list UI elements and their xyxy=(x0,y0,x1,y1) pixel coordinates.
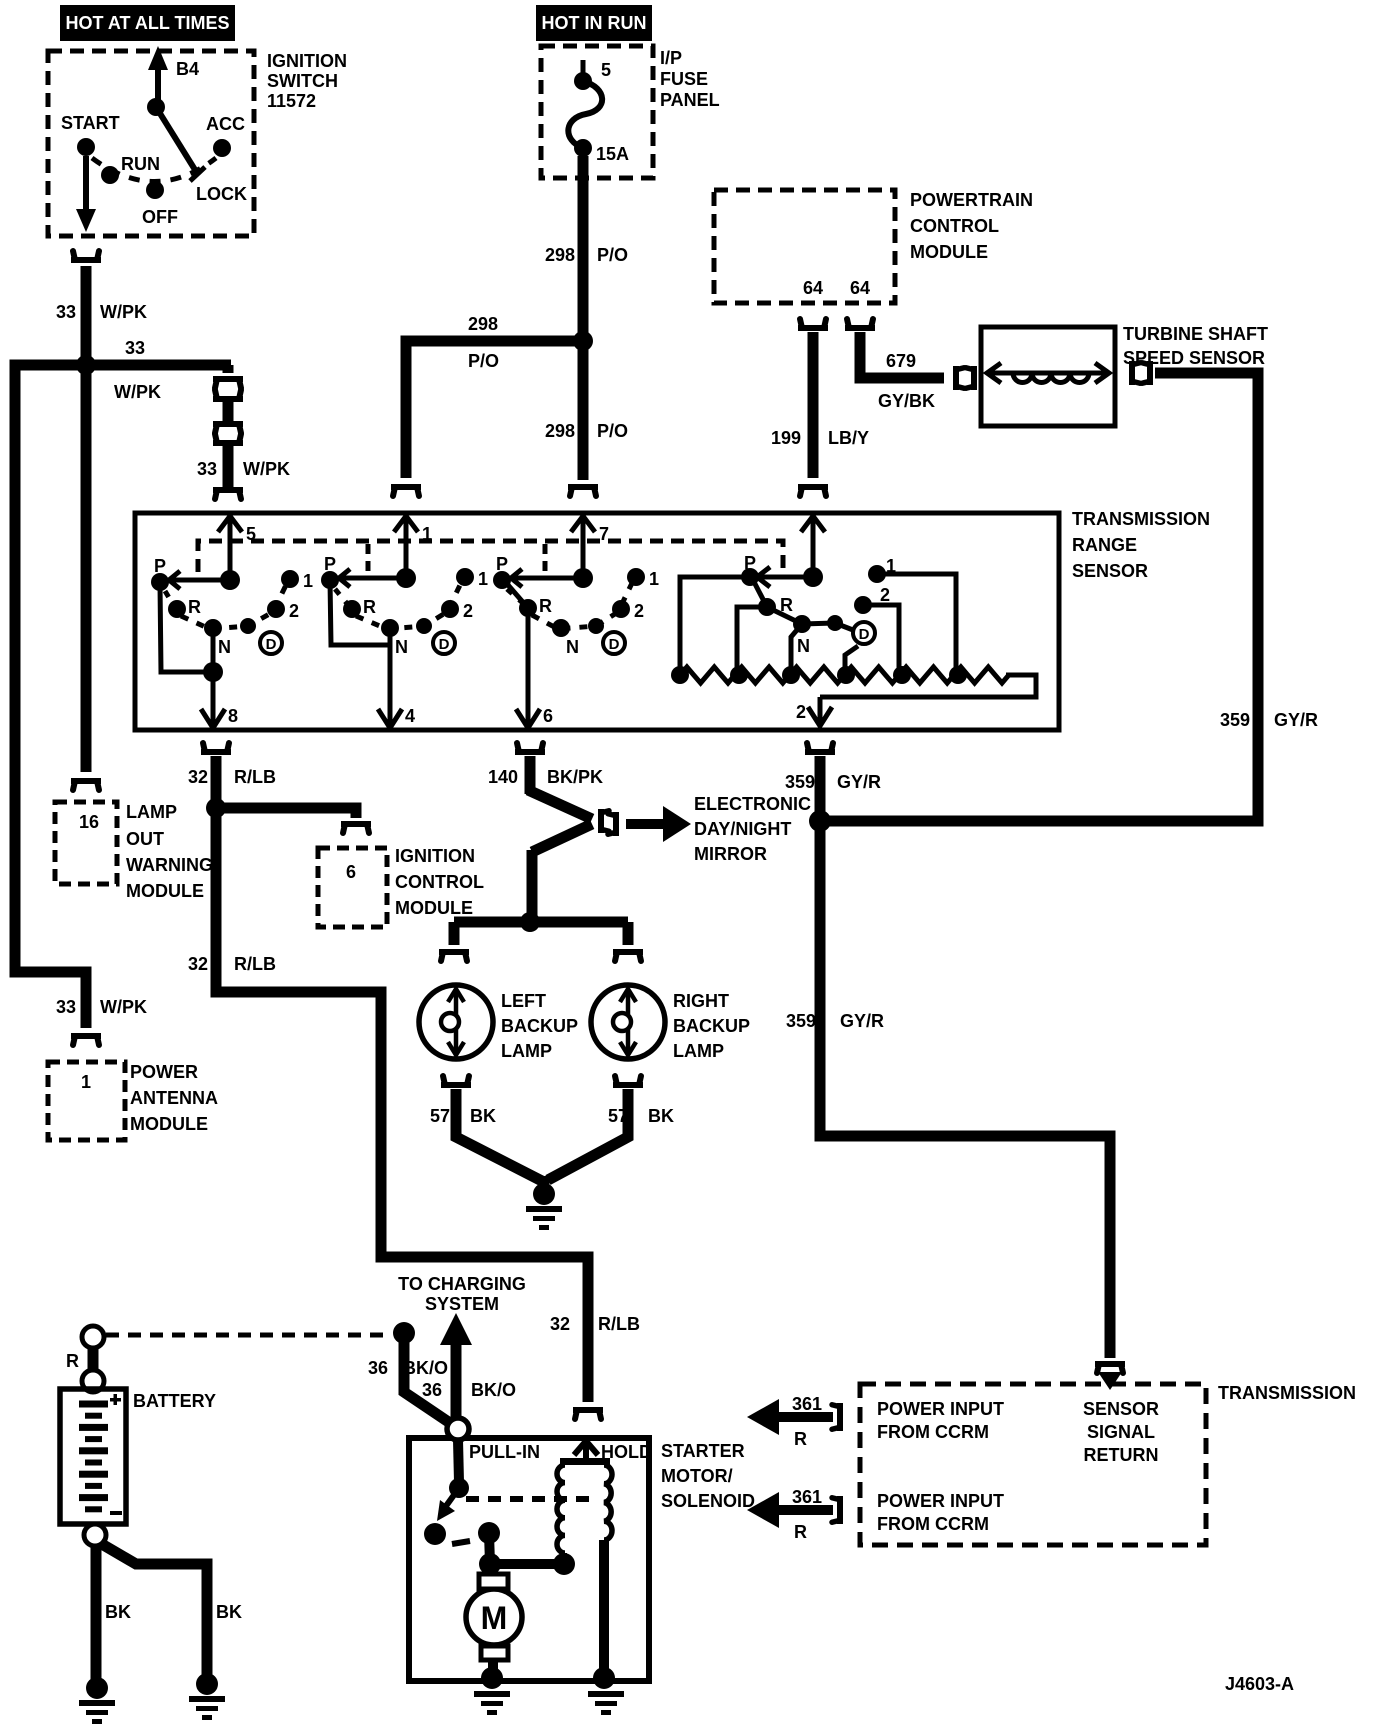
svg-text:1: 1 xyxy=(81,1072,91,1092)
svg-text:LAMP: LAMP xyxy=(126,802,177,822)
svg-text:2: 2 xyxy=(634,601,644,621)
svg-text:298: 298 xyxy=(545,245,575,265)
svg-text:N: N xyxy=(218,637,231,657)
svg-text:298: 298 xyxy=(545,421,575,441)
svg-text:D: D xyxy=(859,626,870,643)
svg-text:LAMP: LAMP xyxy=(673,1041,724,1061)
svg-text:W/PK: W/PK xyxy=(100,302,147,322)
svg-text:BK/PK: BK/PK xyxy=(547,767,603,787)
svg-text:DAY/NIGHT: DAY/NIGHT xyxy=(694,819,791,839)
svg-text:RIGHT: RIGHT xyxy=(673,991,729,1011)
svg-text:11572: 11572 xyxy=(267,91,316,111)
svg-text:M: M xyxy=(481,1600,508,1636)
svg-text:P: P xyxy=(496,554,508,574)
svg-text:FROM CCRM: FROM CCRM xyxy=(877,1422,989,1442)
svg-text:5: 5 xyxy=(246,524,256,544)
svg-text:7: 7 xyxy=(599,524,609,544)
svg-text:RETURN: RETURN xyxy=(1084,1445,1159,1465)
svg-text:POWERTRAIN: POWERTRAIN xyxy=(910,190,1033,210)
svg-text:5: 5 xyxy=(601,60,611,80)
svg-text:P/O: P/O xyxy=(597,245,628,265)
svg-text:32: 32 xyxy=(550,1314,570,1334)
svg-text:SWITCH: SWITCH xyxy=(267,71,338,91)
svg-text:LB/Y: LB/Y xyxy=(828,428,869,448)
svg-text:N: N xyxy=(395,637,408,657)
svg-text:2: 2 xyxy=(880,585,890,605)
svg-text:FROM CCRM: FROM CCRM xyxy=(877,1514,989,1534)
svg-text:TRANSMISSION: TRANSMISSION xyxy=(1218,1383,1356,1403)
svg-text:SENSOR: SENSOR xyxy=(1072,561,1148,581)
svg-text:BK: BK xyxy=(216,1602,242,1622)
svg-text:W/PK: W/PK xyxy=(114,382,161,402)
svg-text:LAMP: LAMP xyxy=(501,1041,552,1061)
svg-text:N: N xyxy=(566,637,579,657)
svg-text:CONTROL: CONTROL xyxy=(910,216,999,236)
svg-text:TO CHARGING: TO CHARGING xyxy=(398,1274,526,1294)
svg-text:57: 57 xyxy=(608,1106,628,1126)
svg-text:36: 36 xyxy=(368,1358,388,1378)
svg-text:ELECTRONIC: ELECTRONIC xyxy=(694,794,811,814)
svg-text:MODULE: MODULE xyxy=(130,1114,208,1134)
svg-text:GY/R: GY/R xyxy=(840,1011,884,1031)
svg-text:R: R xyxy=(794,1429,807,1449)
svg-text:15A: 15A xyxy=(596,144,629,164)
svg-text:36: 36 xyxy=(422,1380,442,1400)
svg-text:1: 1 xyxy=(422,524,432,544)
svg-text:6: 6 xyxy=(543,706,553,726)
svg-text:8: 8 xyxy=(228,706,238,726)
svg-text:BK/O: BK/O xyxy=(471,1380,516,1400)
svg-text:POWER INPUT: POWER INPUT xyxy=(877,1491,1004,1511)
svg-text:TURBINE SHAFT: TURBINE SHAFT xyxy=(1123,324,1268,344)
svg-text:1: 1 xyxy=(303,571,313,591)
svg-text:W/PK: W/PK xyxy=(243,459,290,479)
svg-text:PANEL: PANEL xyxy=(660,90,720,110)
svg-text:TRANSMISSION: TRANSMISSION xyxy=(1072,509,1210,529)
svg-text:SOLENOID: SOLENOID xyxy=(661,1491,755,1511)
svg-text:START: START xyxy=(61,113,120,133)
svg-text:GY/R: GY/R xyxy=(837,772,881,792)
svg-text:P/O: P/O xyxy=(597,421,628,441)
svg-text:D: D xyxy=(439,636,450,653)
svg-text:HOT IN RUN: HOT IN RUN xyxy=(542,13,647,33)
svg-text:2: 2 xyxy=(796,702,806,722)
svg-text:4: 4 xyxy=(405,706,415,726)
svg-text:6: 6 xyxy=(346,862,356,882)
svg-text:359: 359 xyxy=(785,772,815,792)
svg-text:R: R xyxy=(188,597,201,617)
svg-text:W/PK: W/PK xyxy=(100,997,147,1017)
svg-text:ACC: ACC xyxy=(206,114,245,134)
svg-text:R: R xyxy=(794,1522,807,1542)
svg-text:IGNITION: IGNITION xyxy=(395,846,475,866)
svg-text:R/LB: R/LB xyxy=(234,954,276,974)
svg-text:BK: BK xyxy=(105,1602,131,1622)
svg-text:POWER INPUT: POWER INPUT xyxy=(877,1399,1004,1419)
svg-text:OUT: OUT xyxy=(126,829,164,849)
svg-text:HOT AT ALL TIMES: HOT AT ALL TIMES xyxy=(66,13,230,33)
svg-text:BACKUP: BACKUP xyxy=(501,1016,578,1036)
svg-text:R/LB: R/LB xyxy=(234,767,276,787)
svg-text:D: D xyxy=(609,636,620,653)
svg-text:RUN: RUN xyxy=(121,154,160,174)
svg-text:361: 361 xyxy=(792,1487,822,1507)
svg-text:MODULE: MODULE xyxy=(910,242,988,262)
svg-text:BACKUP: BACKUP xyxy=(673,1016,750,1036)
svg-text:2: 2 xyxy=(289,601,299,621)
svg-text:R: R xyxy=(66,1351,79,1371)
svg-text:679: 679 xyxy=(886,351,916,371)
svg-text:298: 298 xyxy=(468,314,498,334)
svg-text:LEFT: LEFT xyxy=(501,991,546,1011)
svg-text:I/P: I/P xyxy=(660,48,682,68)
svg-text:MIRROR: MIRROR xyxy=(694,844,767,864)
svg-text:140: 140 xyxy=(488,767,518,787)
svg-text:B4: B4 xyxy=(176,59,199,79)
svg-text:BK/O: BK/O xyxy=(403,1358,448,1378)
svg-text:2: 2 xyxy=(463,601,473,621)
svg-text:P: P xyxy=(324,554,336,574)
svg-text:P: P xyxy=(154,556,166,576)
svg-text:OFF: OFF xyxy=(142,207,178,227)
svg-text:SIGNAL: SIGNAL xyxy=(1087,1422,1155,1442)
svg-text:CONTROL: CONTROL xyxy=(395,872,484,892)
svg-text:SYSTEM: SYSTEM xyxy=(425,1294,499,1314)
svg-text:32: 32 xyxy=(188,767,208,787)
svg-text:MODULE: MODULE xyxy=(126,881,204,901)
svg-text:BK: BK xyxy=(648,1106,674,1126)
svg-text:64: 64 xyxy=(850,278,870,298)
svg-text:57: 57 xyxy=(430,1106,450,1126)
svg-text:33: 33 xyxy=(197,459,217,479)
svg-text:33: 33 xyxy=(125,338,145,358)
svg-text:P/O: P/O xyxy=(468,351,499,371)
svg-text:BK: BK xyxy=(470,1106,496,1126)
svg-text:R/LB: R/LB xyxy=(598,1314,640,1334)
svg-text:64: 64 xyxy=(803,278,823,298)
svg-text:STARTER: STARTER xyxy=(661,1441,745,1461)
svg-text:1: 1 xyxy=(649,569,659,589)
svg-text:J4603-A: J4603-A xyxy=(1225,1674,1294,1694)
svg-text:199: 199 xyxy=(771,428,801,448)
svg-text:16: 16 xyxy=(79,812,99,832)
svg-text:MOTOR/: MOTOR/ xyxy=(661,1466,733,1486)
svg-text:POWER: POWER xyxy=(130,1062,198,1082)
svg-text:R: R xyxy=(539,596,552,616)
svg-text:WARNING: WARNING xyxy=(126,855,213,875)
svg-text:1: 1 xyxy=(478,569,488,589)
svg-text:N: N xyxy=(797,636,810,656)
svg-text:BATTERY: BATTERY xyxy=(133,1391,216,1411)
svg-text:359: 359 xyxy=(786,1011,816,1031)
svg-text:GY/R: GY/R xyxy=(1274,710,1318,730)
svg-text:IGNITION: IGNITION xyxy=(267,51,347,71)
svg-text:SENSOR: SENSOR xyxy=(1083,1399,1159,1419)
svg-text:LOCK: LOCK xyxy=(196,184,247,204)
svg-text:33: 33 xyxy=(56,997,76,1017)
svg-text:MODULE: MODULE xyxy=(395,898,473,918)
svg-text:361: 361 xyxy=(792,1394,822,1414)
svg-text:ANTENNA: ANTENNA xyxy=(130,1088,218,1108)
svg-text:359: 359 xyxy=(1220,710,1250,730)
svg-text:GY/BK: GY/BK xyxy=(878,391,935,411)
svg-text:32: 32 xyxy=(188,954,208,974)
svg-text:D: D xyxy=(266,636,277,653)
svg-text:33: 33 xyxy=(56,302,76,322)
svg-text:PULL-IN: PULL-IN xyxy=(469,1442,540,1462)
svg-text:RANGE: RANGE xyxy=(1072,535,1137,555)
svg-text:FUSE: FUSE xyxy=(660,69,708,89)
svg-text:P: P xyxy=(744,553,756,573)
svg-text:R: R xyxy=(363,597,376,617)
